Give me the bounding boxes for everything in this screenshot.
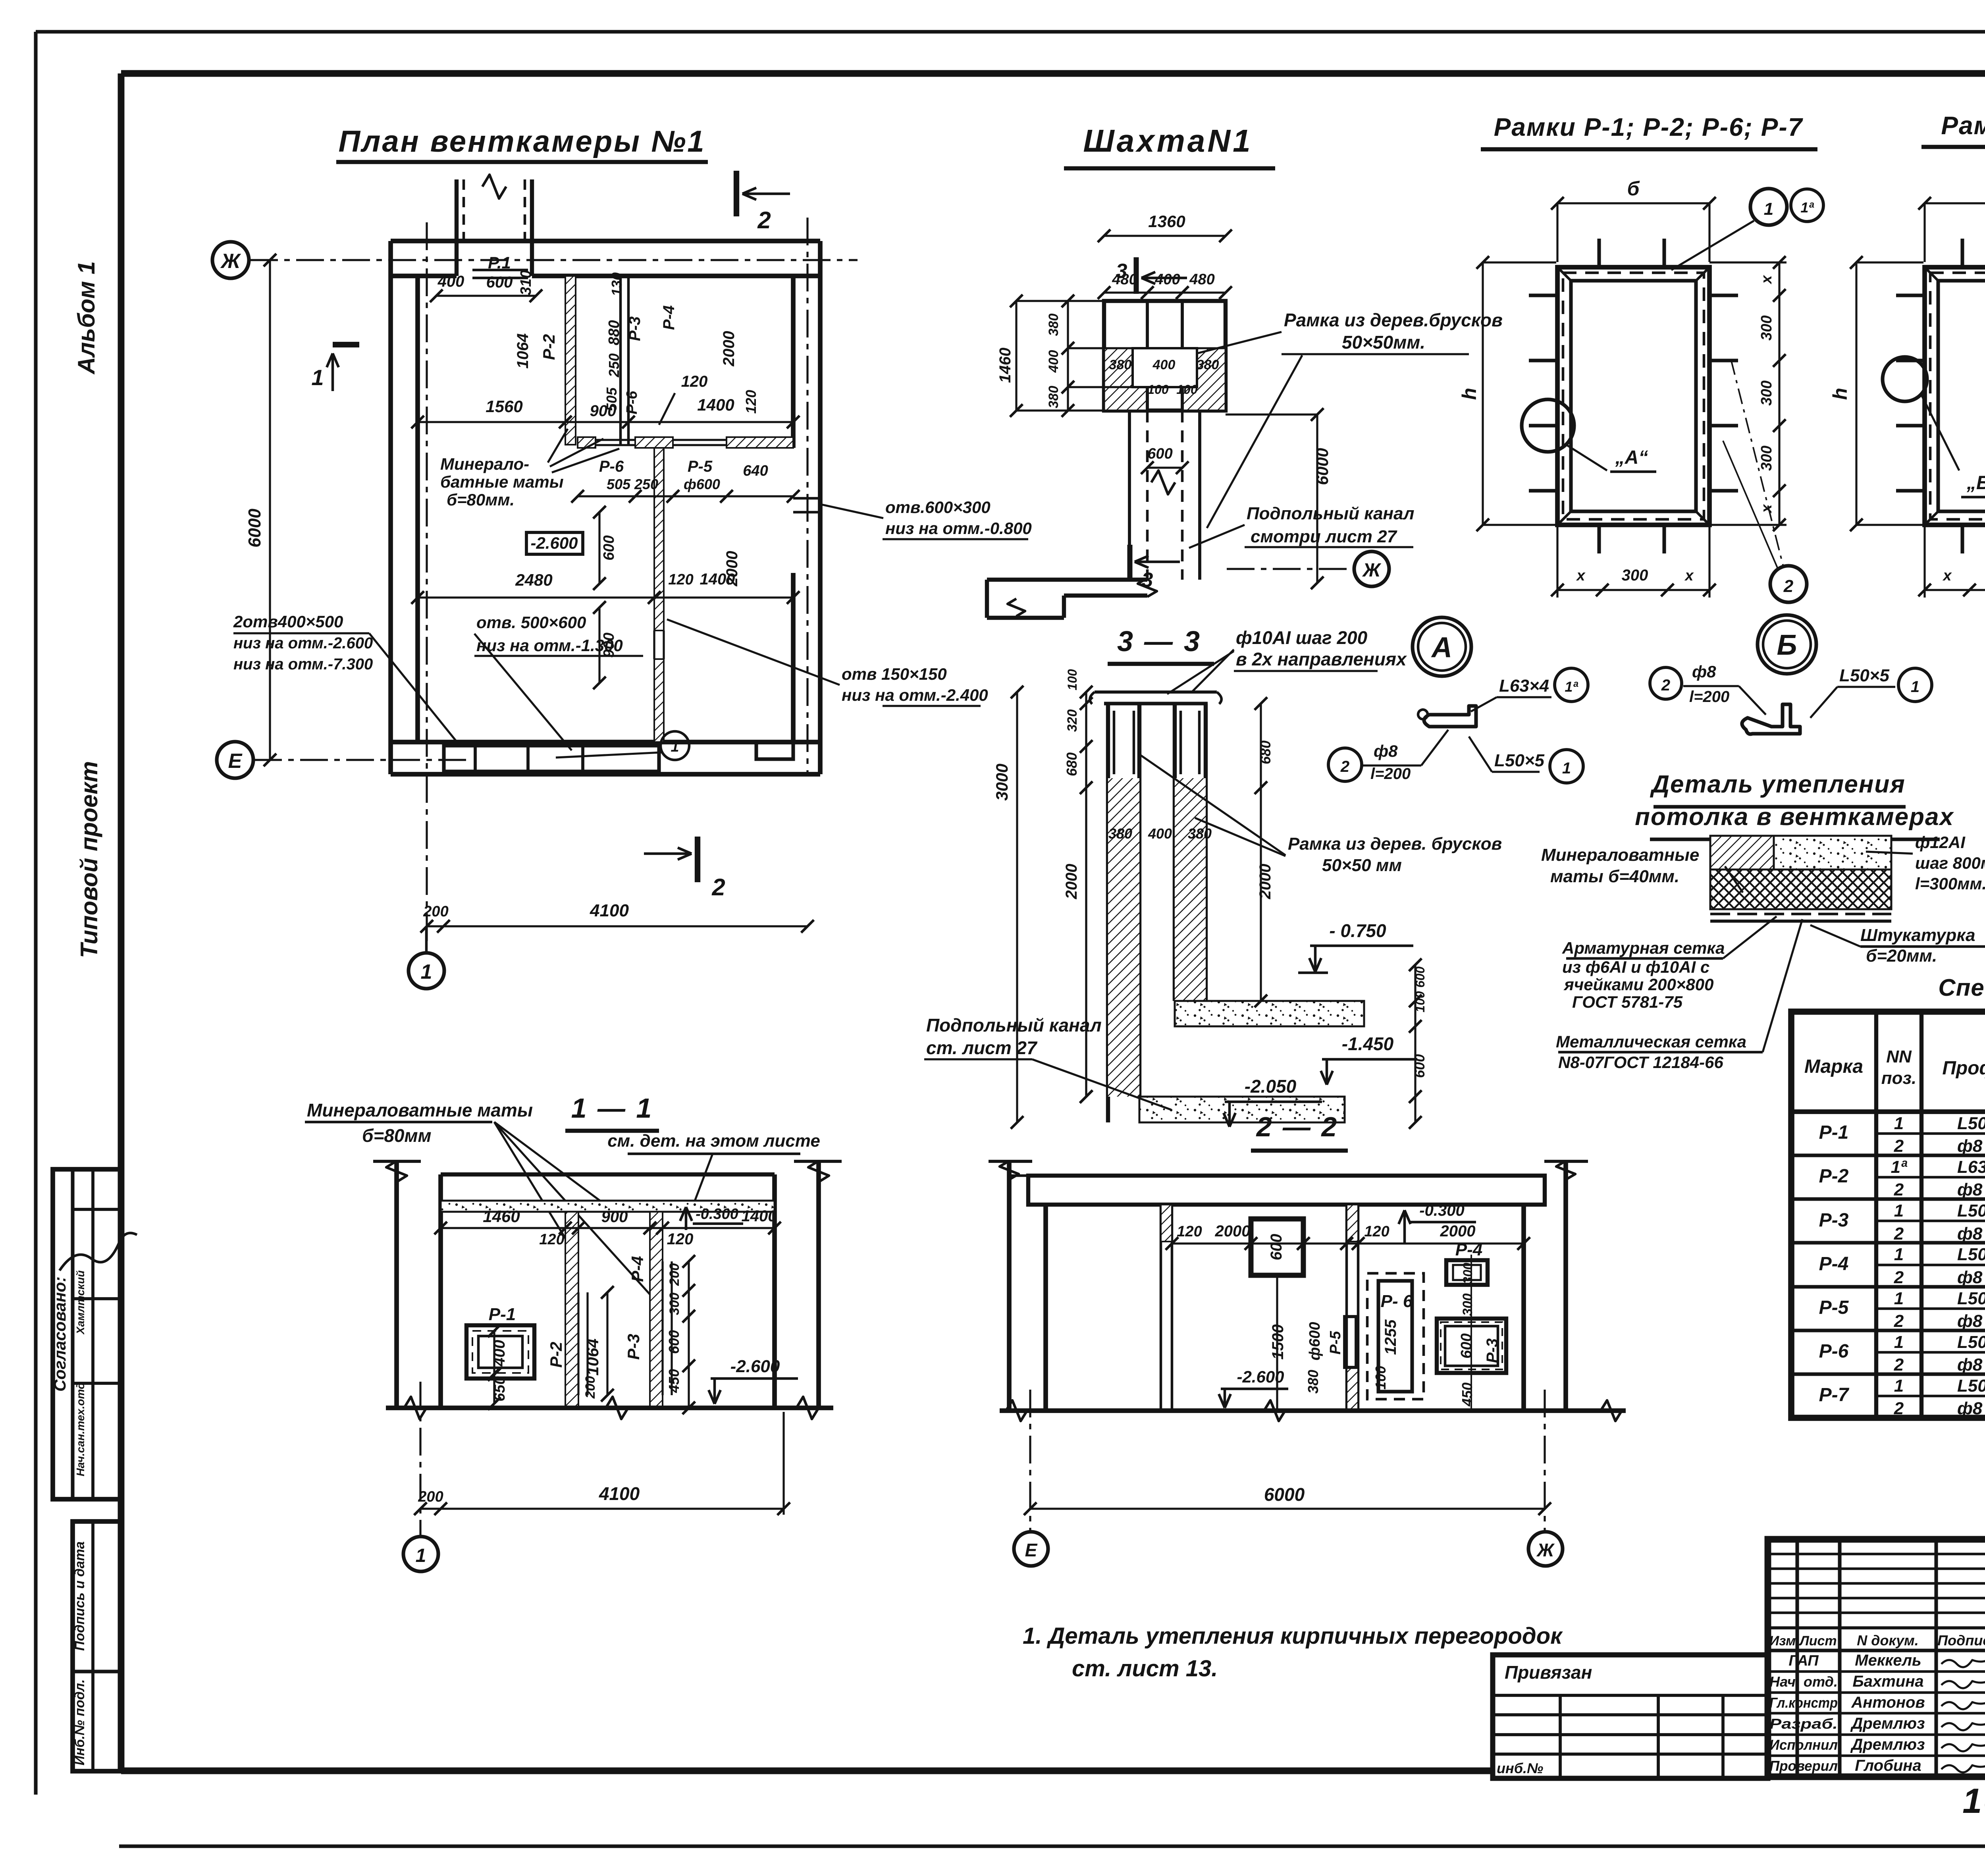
svg-text:4100: 4100 — [590, 901, 629, 920]
svg-text:из ф6АI и ф10АI с: из ф6АI и ф10АI с — [1562, 958, 1709, 976]
svg-text:Р-6: Р-6 — [624, 391, 640, 415]
svg-text:Рамки Р-1; Р-2; Р-6; Р-7: Рамки Р-1; Р-2; Р-6; Р-7 — [1494, 113, 1804, 141]
svg-text:„А“: „А“ — [1615, 447, 1648, 468]
svg-text:Подпольный канал: Подпольный канал — [926, 1015, 1102, 1035]
svg-text:L50×5: L50×5 — [1957, 1201, 1985, 1220]
svg-text:поз.: поз. — [1881, 1068, 1916, 1088]
svg-text:-1.450: -1.450 — [1342, 1033, 1394, 1054]
svg-text:Р-4: Р-4 — [1455, 1240, 1482, 1259]
svg-text:600: 600 — [1147, 445, 1172, 462]
svg-text:l=300мм.: l=300мм. — [1915, 874, 1985, 893]
svg-text:Изм: Изм — [1769, 1633, 1796, 1648]
svg-text:Спецификация на один элемент.: Спецификация на один элемент. — [1938, 974, 1985, 1001]
svg-text:880: 880 — [606, 320, 622, 345]
svg-text:6000: 6000 — [245, 509, 264, 548]
svg-text:Р-3: Р-3 — [1484, 1338, 1501, 1363]
svg-text:400: 400 — [437, 273, 464, 290]
svg-text:1099 -: 1099 - — [1962, 1781, 1985, 1820]
svg-text:200: 200 — [423, 903, 448, 920]
svg-text:потолка в венткамерах: потолка в венткамерах — [1635, 803, 1954, 831]
svg-text:1360: 1360 — [1148, 212, 1185, 231]
svg-text:380: 380 — [1109, 357, 1132, 372]
svg-text:Р-7: Р-7 — [1819, 1384, 1850, 1406]
svg-text:1 — 1: 1 — 1 — [571, 1093, 653, 1124]
svg-text:Антонов: Антонов — [1851, 1694, 1925, 1711]
svg-text:Рамка из дерев.брусков: Рамка из дерев.брусков — [1284, 310, 1503, 330]
svg-text:Типовой проект: Типовой проект — [76, 761, 102, 958]
svg-text:Арматурная сетка: Арматурная сетка — [1562, 939, 1725, 957]
svg-text:L50×5: L50×5 — [1957, 1332, 1985, 1352]
svg-text:Бахтина: Бахтина — [1852, 1673, 1923, 1690]
svg-text:Р-6: Р-6 — [599, 458, 624, 475]
svg-text:Марка: Марка — [1804, 1056, 1863, 1077]
svg-text:Проверил: Проверил — [1769, 1758, 1838, 1774]
svg-text:380: 380 — [1197, 357, 1219, 372]
svg-text:ф8: ф8 — [1374, 742, 1398, 760]
svg-text:300: 300 — [1460, 1294, 1475, 1316]
svg-text:Гл.констр: Гл.констр — [1769, 1695, 1838, 1711]
svg-text:1: 1 — [1894, 1114, 1904, 1133]
svg-text:1500: 1500 — [1269, 1325, 1287, 1360]
svg-text:Ж: Ж — [220, 250, 241, 273]
svg-text:Б: Б — [1777, 629, 1797, 661]
svg-text:380: 380 — [1108, 825, 1132, 842]
svg-text:Р-1: Р-1 — [1819, 1122, 1849, 1143]
svg-text:1: 1 — [416, 1545, 426, 1566]
svg-text:NN: NN — [1886, 1047, 1912, 1066]
svg-text:l=200: l=200 — [1370, 765, 1411, 783]
svg-text:100: 100 — [1065, 669, 1079, 690]
svg-text:Минерало-: Минерало- — [440, 455, 529, 473]
svg-text:x: x — [1758, 504, 1775, 514]
svg-text:600: 600 — [601, 535, 617, 560]
svg-text:ф8: ф8 — [1957, 1180, 1983, 1199]
svg-text:Р-3: Р-3 — [626, 316, 644, 341]
svg-text:Минераловатные маты: Минераловатные маты — [307, 1100, 533, 1120]
svg-text:низ на отм.-2.400: низ на отм.-2.400 — [842, 686, 988, 704]
svg-text:смотри лист 27: смотри лист 27 — [1251, 527, 1398, 546]
svg-text:900: 900 — [590, 402, 617, 420]
svg-text:1: 1 — [1894, 1201, 1904, 1220]
svg-text:6000: 6000 — [1264, 1484, 1305, 1505]
svg-text:x: x — [1942, 567, 1952, 584]
svg-text:l=200: l=200 — [1689, 688, 1729, 706]
svg-text:Ж: Ж — [1536, 1540, 1555, 1560]
svg-text:2: 2 — [1661, 677, 1670, 694]
svg-text:Е: Е — [1025, 1540, 1038, 1560]
svg-text:ф600: ф600 — [1307, 1322, 1323, 1360]
svg-text:h: h — [1829, 388, 1851, 400]
svg-text:ст. лист 13.: ст. лист 13. — [1072, 1656, 1218, 1681]
svg-text:1: 1 — [311, 365, 324, 390]
svg-text:Инб.№ подл.: Инб.№ подл. — [72, 1679, 87, 1765]
svg-text:ф8: ф8 — [1957, 1268, 1983, 1287]
svg-text:3: 3 — [1116, 260, 1127, 283]
svg-text:1460: 1460 — [996, 348, 1014, 383]
svg-text:2: 2 — [1894, 1136, 1904, 1156]
svg-text:2: 2 — [1894, 1180, 1904, 1199]
svg-text:2000: 2000 — [1063, 864, 1080, 900]
svg-text:2000: 2000 — [720, 331, 738, 367]
svg-text:2480: 2480 — [515, 571, 552, 589]
svg-text:маты б=40мм.: маты б=40мм. — [1550, 867, 1679, 886]
svg-text:120: 120 — [1177, 1223, 1202, 1240]
svg-text:300: 300 — [1461, 1263, 1475, 1284]
svg-text:см. дет. на этом листе: см. дет. на этом листе — [607, 1131, 820, 1151]
svg-text:600: 600 — [666, 1330, 682, 1354]
svg-text:1064: 1064 — [583, 1338, 602, 1375]
svg-text:2: 2 — [1894, 1311, 1904, 1331]
svg-text:1ª: 1ª — [1891, 1157, 1908, 1177]
svg-text:А: А — [1431, 632, 1452, 663]
svg-text:4100: 4100 — [599, 1483, 640, 1504]
svg-text:1: 1 — [1764, 199, 1773, 219]
svg-text:300: 300 — [1758, 445, 1775, 470]
svg-text:Р- 6: Р- 6 — [1381, 1292, 1413, 1311]
svg-text:План венткамеры №1: План венткамеры №1 — [339, 125, 706, 158]
svg-text:680: 680 — [1064, 752, 1080, 776]
svg-text:Подпольный канал: Подпольный канал — [1247, 504, 1415, 523]
svg-text:450: 450 — [1459, 1382, 1475, 1407]
svg-text:505: 505 — [607, 476, 631, 492]
svg-text:Лист: Лист — [1798, 1633, 1837, 1648]
svg-text:Р-2: Р-2 — [540, 334, 558, 360]
svg-text:ШахтаN1: ШахтаN1 — [1083, 123, 1253, 158]
svg-text:б=20мм.: б=20мм. — [1866, 946, 1937, 966]
svg-text:100: 100 — [1147, 382, 1169, 397]
svg-text:ф8: ф8 — [1957, 1224, 1983, 1244]
svg-text:1. Деталь утепления кирпичных: 1. Деталь утепления кирпичных перегородо… — [1023, 1623, 1563, 1649]
svg-text:Рамка из дерев. брусков: Рамка из дерев. брусков — [1288, 834, 1502, 854]
svg-text:Деталь утепления: Деталь утепления — [1650, 771, 1905, 798]
svg-text:380: 380 — [1046, 314, 1061, 336]
svg-text:1ª: 1ª — [1800, 199, 1814, 216]
svg-text:низ на отм.-1.300: низ на отм.-1.300 — [476, 636, 623, 655]
svg-text:3 — 3: 3 — 3 — [1117, 626, 1201, 657]
svg-text:1: 1 — [421, 960, 432, 983]
svg-text:L50×5: L50×5 — [1839, 666, 1890, 685]
svg-text:L63×4: L63×4 — [1957, 1157, 1985, 1177]
svg-text:ст. лист 27: ст. лист 27 — [926, 1037, 1038, 1058]
svg-text:Разраб.: Разраб. — [1769, 1716, 1838, 1732]
svg-text:ф600: ф600 — [684, 476, 720, 492]
svg-text:450: 450 — [666, 1369, 682, 1393]
svg-text:Р-3: Р-3 — [1819, 1210, 1849, 1231]
svg-text:680: 680 — [1257, 740, 1274, 764]
svg-text:„Б“: „Б“ — [1966, 472, 1985, 494]
svg-text:Р-5: Р-5 — [1819, 1297, 1849, 1318]
svg-text:2: 2 — [1340, 758, 1349, 775]
svg-text:Штукатурка: Штукатурка — [1860, 925, 1975, 945]
svg-text:300: 300 — [1622, 567, 1648, 584]
svg-text:x: x — [1684, 567, 1694, 584]
svg-text:Р-5: Р-5 — [688, 458, 713, 475]
svg-text:в 2х направлениях: в 2х направлениях — [1236, 649, 1407, 669]
svg-text:600: 600 — [1268, 1234, 1285, 1261]
svg-text:Р-4: Р-4 — [660, 305, 678, 330]
svg-text:L50×5: L50×5 — [1957, 1114, 1985, 1133]
svg-text:Металлическая сетка: Металлическая сетка — [1556, 1032, 1746, 1051]
svg-text:400: 400 — [1148, 825, 1172, 842]
svg-text:Исполнил: Исполнил — [1769, 1737, 1838, 1753]
svg-text:Р-6: Р-6 — [1819, 1341, 1849, 1362]
svg-text:-0.300: -0.300 — [696, 1206, 738, 1222]
svg-text:2000: 2000 — [1440, 1222, 1476, 1240]
svg-text:2: 2 — [711, 874, 725, 900]
svg-text:ф8: ф8 — [1957, 1399, 1983, 1418]
svg-text:Дремлюз: Дремлюз — [1850, 1715, 1925, 1732]
svg-text:1560: 1560 — [486, 397, 522, 416]
svg-text:б: б — [1627, 177, 1640, 200]
svg-text:380: 380 — [1305, 1370, 1321, 1394]
svg-text:1: 1 — [1894, 1289, 1904, 1308]
svg-text:200: 200 — [667, 1263, 682, 1286]
svg-text:L50×5: L50×5 — [1957, 1376, 1985, 1396]
svg-text:2отв400×500: 2отв400×500 — [233, 612, 343, 631]
svg-text:400: 400 — [1154, 271, 1180, 288]
svg-text:б=80мм.: б=80мм. — [447, 490, 515, 509]
svg-text:ф8: ф8 — [1957, 1311, 1983, 1331]
svg-text:ф8: ф8 — [1957, 1136, 1983, 1156]
svg-text:x: x — [1576, 567, 1586, 584]
svg-text:L50×5: L50×5 — [1957, 1245, 1985, 1264]
svg-text:ф12АI: ф12АI — [1915, 833, 1966, 852]
svg-text:2000: 2000 — [1215, 1222, 1251, 1240]
svg-text:400: 400 — [1046, 350, 1061, 373]
svg-text:1: 1 — [1894, 1245, 1904, 1264]
svg-text:ГОСТ 5781-75: ГОСТ 5781-75 — [1572, 993, 1683, 1011]
svg-text:L63×4: L63×4 — [1499, 676, 1549, 696]
svg-text:200: 200 — [583, 1376, 598, 1399]
svg-text:N докум.: N докум. — [1857, 1632, 1919, 1648]
svg-text:1400: 1400 — [697, 395, 734, 414]
svg-text:600: 600 — [1458, 1333, 1475, 1358]
svg-text:низ на отм.-0.800: низ на отм.-0.800 — [885, 519, 1032, 538]
svg-text:2: 2 — [1894, 1268, 1904, 1287]
svg-text:-2.600: -2.600 — [530, 534, 578, 552]
svg-text:Ж: Ж — [1362, 560, 1382, 581]
svg-text:120: 120 — [667, 1230, 694, 1248]
svg-text:Подпись и дата: Подпись и дата — [72, 1541, 87, 1651]
svg-text:Подпись: Подпись — [1937, 1632, 1985, 1648]
svg-text:L50×5: L50×5 — [1957, 1289, 1985, 1308]
svg-text:Нач. отд.: Нач. отд. — [1769, 1674, 1838, 1690]
svg-text:L50×5: L50×5 — [1494, 751, 1545, 770]
svg-text:640: 640 — [743, 463, 768, 479]
svg-text:ГАП: ГАП — [1788, 1652, 1819, 1669]
svg-text:1460: 1460 — [483, 1207, 520, 1226]
svg-text:x: x — [1758, 275, 1775, 285]
svg-text:Рамки Р-3; Р-4: Рамки Р-3; Р-4 — [1941, 111, 1985, 140]
svg-text:ячейками 200×800: ячейками 200×800 — [1563, 975, 1713, 994]
svg-text:Р-4: Р-4 — [1819, 1253, 1849, 1274]
svg-text:380: 380 — [1188, 825, 1212, 842]
svg-text:Дремлюз: Дремлюз — [1850, 1736, 1925, 1753]
svg-text:120: 120 — [1364, 1223, 1389, 1240]
svg-text:300: 300 — [667, 1293, 682, 1315]
svg-text:100: 100 — [1372, 1366, 1389, 1390]
svg-text:шаг 800мм: шаг 800мм — [1915, 854, 1985, 872]
svg-text:1: 1 — [671, 738, 679, 755]
svg-text:250: 250 — [634, 476, 658, 492]
svg-text:отв. 500×600: отв. 500×600 — [476, 613, 586, 632]
svg-text:-2.600: -2.600 — [1237, 1367, 1284, 1386]
svg-text:2: 2 — [757, 207, 771, 233]
svg-text:50×50 мм: 50×50 мм — [1322, 856, 1402, 875]
svg-text:отв.600×300: отв.600×300 — [885, 498, 991, 517]
svg-text:6000: 6000 — [1313, 448, 1332, 485]
svg-text:1: 1 — [1562, 760, 1571, 777]
svg-text:-2.050: -2.050 — [1245, 1076, 1297, 1097]
svg-text:инб.№: инб.№ — [1497, 1760, 1543, 1776]
svg-text:1: 1 — [1894, 1332, 1904, 1352]
svg-text:Альбом 1: Альбом 1 — [73, 261, 100, 375]
svg-text:310: 310 — [518, 270, 534, 295]
svg-text:1255: 1255 — [1382, 1319, 1399, 1355]
svg-text:Р.1: Р.1 — [488, 253, 511, 272]
svg-text:2: 2 — [1894, 1355, 1904, 1375]
svg-text:1400: 1400 — [742, 1207, 777, 1225]
svg-text:3000: 3000 — [992, 764, 1011, 800]
svg-text:300: 300 — [1758, 380, 1775, 405]
svg-text:Нач.сан.тех.отд: Нач.сан.тех.отд — [74, 1382, 87, 1477]
svg-text:-2.600: -2.600 — [730, 1357, 780, 1376]
svg-text:100: 100 — [1176, 382, 1198, 397]
svg-text:-0.300: -0.300 — [1419, 1202, 1464, 1219]
svg-text:Хамлтский: Хамлтский — [74, 1271, 87, 1335]
svg-text:120: 120 — [539, 1231, 564, 1248]
svg-text:2 — 2: 2 — 2 — [1256, 1111, 1339, 1142]
svg-text:320: 320 — [1065, 710, 1080, 732]
svg-text:ф8: ф8 — [1957, 1355, 1983, 1375]
svg-text:1064: 1064 — [514, 334, 532, 369]
svg-text:200: 200 — [418, 1488, 443, 1505]
svg-text:Р-2: Р-2 — [547, 1342, 565, 1367]
svg-text:- 0.750: - 0.750 — [1329, 920, 1386, 941]
svg-text:отв 150×150: отв 150×150 — [842, 665, 947, 683]
svg-text:600: 600 — [1411, 1054, 1428, 1078]
svg-text:Согласовано:: Согласовано: — [50, 1276, 69, 1392]
svg-text:Р-1: Р-1 — [489, 1305, 516, 1324]
svg-text:низ на отм.-2.600: низ на отм.-2.600 — [233, 634, 373, 652]
svg-text:h: h — [1458, 388, 1480, 400]
svg-text:2: 2 — [1894, 1224, 1904, 1244]
svg-text:Р-5: Р-5 — [1327, 1331, 1344, 1355]
svg-text:130: 130 — [609, 272, 625, 296]
svg-text:480: 480 — [1189, 271, 1214, 288]
svg-text:Р-3: Р-3 — [624, 1334, 643, 1359]
svg-text:1: 1 — [1911, 678, 1919, 696]
svg-text:б=80мм: б=80мм — [362, 1125, 432, 1146]
svg-text:батные маты: батные маты — [440, 472, 564, 491]
svg-text:Е: Е — [228, 750, 243, 773]
svg-text:1ª: 1ª — [1565, 679, 1578, 695]
svg-text:380: 380 — [1046, 386, 1061, 409]
svg-text:120: 120 — [681, 373, 708, 390]
svg-text:2: 2 — [1783, 576, 1794, 596]
svg-text:ф8: ф8 — [1692, 662, 1716, 681]
svg-text:120: 120 — [743, 390, 759, 414]
svg-text:Р-2: Р-2 — [1819, 1166, 1849, 1187]
svg-text:Р-4: Р-4 — [628, 1256, 647, 1282]
svg-text:Профиль: Профиль — [1942, 1058, 1985, 1079]
svg-text:600: 600 — [486, 274, 513, 291]
svg-text:50×50мм.: 50×50мм. — [1342, 332, 1425, 353]
svg-text:Привязан: Привязан — [1505, 1662, 1592, 1683]
svg-text:1: 1 — [1894, 1376, 1904, 1396]
svg-text:N8-07ГОСТ 12184-66: N8-07ГОСТ 12184-66 — [1558, 1053, 1723, 1072]
svg-text:1400: 1400 — [700, 571, 735, 588]
svg-text:низ на отм.-7.300: низ на отм.-7.300 — [233, 656, 373, 673]
svg-text:Меккель: Меккель — [1855, 1652, 1921, 1669]
svg-text:2: 2 — [1894, 1399, 1904, 1418]
svg-text:300: 300 — [1758, 315, 1775, 340]
svg-text:250: 250 — [606, 353, 622, 378]
svg-text:2000: 2000 — [1257, 864, 1274, 900]
svg-text:120: 120 — [668, 571, 693, 588]
svg-text:ф10AI шаг 200: ф10AI шаг 200 — [1236, 627, 1368, 648]
svg-text:400: 400 — [1152, 357, 1176, 372]
svg-text:Глобина: Глобина — [1855, 1757, 1921, 1774]
svg-text:Минераловатные: Минераловатные — [1541, 845, 1699, 865]
svg-text:900: 900 — [601, 1208, 628, 1226]
